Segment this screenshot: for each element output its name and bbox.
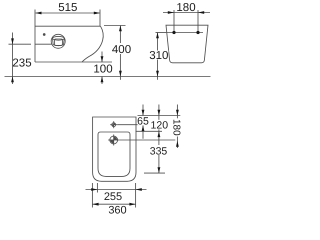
- svg-text:235: 235: [12, 57, 31, 69]
- svg-text:515: 515: [58, 2, 77, 14]
- svg-text:65: 65: [137, 115, 149, 127]
- svg-text:310: 310: [149, 50, 168, 62]
- svg-text:180: 180: [171, 119, 182, 136]
- svg-text:360: 360: [108, 205, 126, 217]
- svg-text:100: 100: [93, 64, 112, 76]
- svg-text:335: 335: [150, 146, 168, 158]
- svg-text:255: 255: [104, 191, 122, 203]
- svg-text:180: 180: [176, 2, 195, 14]
- svg-text:120: 120: [151, 120, 169, 132]
- svg-text:400: 400: [112, 44, 131, 56]
